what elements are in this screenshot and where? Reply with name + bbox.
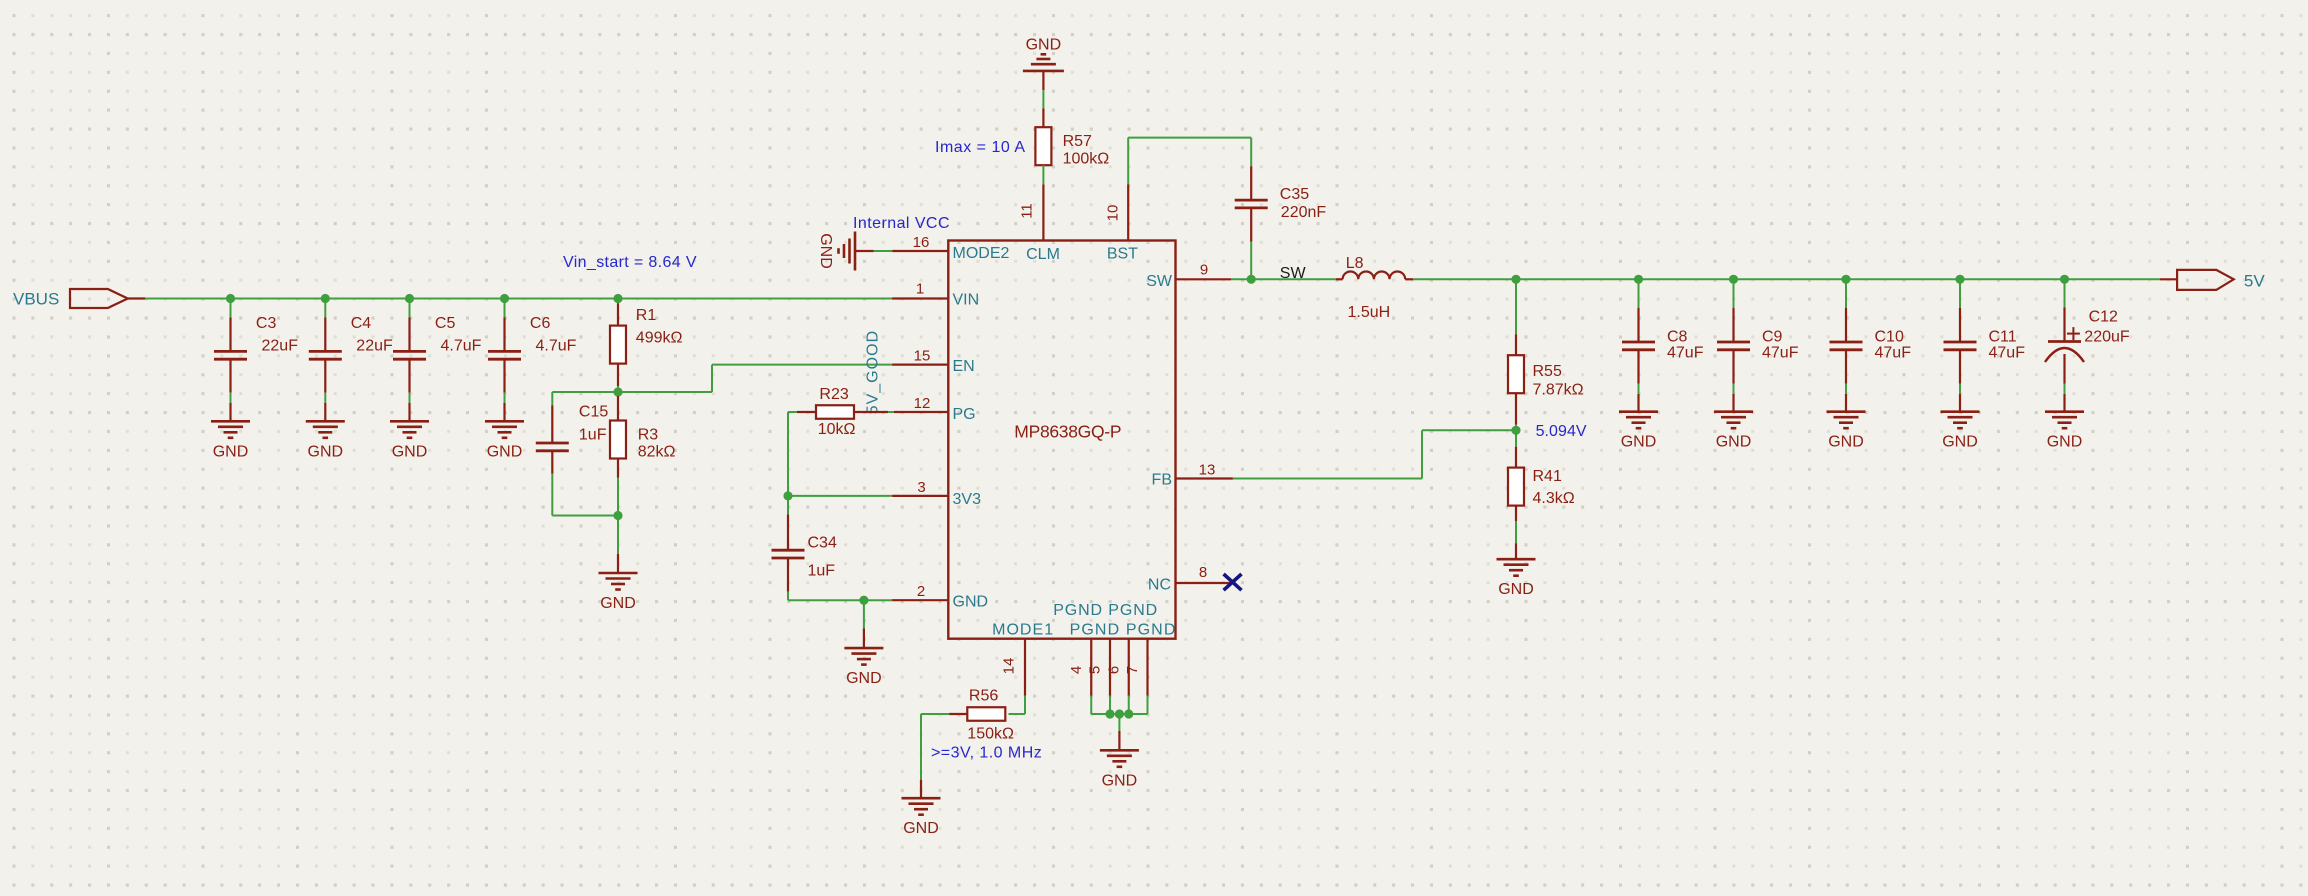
L8 right lead (1405, 278, 1413, 280)
wire node to GND R3 (617, 516, 619, 555)
svg-text:1uF: 1uF (808, 563, 836, 580)
capacitor C12 polarized (2045, 327, 2084, 362)
wire R3 top (617, 392, 619, 396)
svg-text:>=3V, 1.0 MHz: >=3V, 1.0 MHz (931, 745, 1042, 762)
C12 top lead (2063, 307, 2065, 341)
label C35 value (1280, 186, 1327, 221)
svg-text:GND: GND (308, 443, 344, 460)
wire 3V3 net (788, 495, 892, 497)
svg-text:L8: L8 (1346, 255, 1364, 272)
svg-text:GND: GND (903, 820, 939, 837)
C15 bottom lead (551, 451, 553, 474)
resistor R23 (816, 405, 854, 419)
svg-text:5.094V: 5.094V (1536, 423, 1587, 440)
capacitor C9 (1717, 342, 1750, 350)
node PGND junction 5 (1105, 709, 1114, 718)
label C8 value (1667, 328, 1704, 361)
node R3 C15 (613, 511, 622, 520)
GND stub R3 (617, 554, 619, 573)
wire EN net (618, 365, 892, 392)
GND stub MODE2 (855, 250, 874, 252)
svg-text:C12: C12 (2089, 308, 2118, 325)
port VBUS (13, 289, 128, 309)
R41 bottom lead (1515, 506, 1517, 521)
svg-text:100kΩ: 100kΩ (1063, 150, 1110, 167)
wire PGND pin 6 (1128, 696, 1130, 714)
pin 9 SW stub (1175, 278, 1231, 280)
svg-text:R57: R57 (1063, 133, 1092, 150)
GND stub C4 (324, 403, 326, 422)
wire PGND pin 4 (1090, 696, 1092, 714)
svg-text:PGND PGND: PGND PGND (1053, 602, 1157, 619)
GND stub C9 (1732, 394, 1734, 412)
svg-text:FB: FB (1152, 471, 1172, 488)
svg-text:C3: C3 (256, 315, 277, 332)
svg-text:R23: R23 (819, 386, 848, 403)
GND stub C10 (1845, 394, 1847, 412)
svg-text:C9: C9 (1762, 328, 1783, 345)
node VBUS junction R1 (613, 294, 622, 303)
svg-text:PG: PG (953, 406, 976, 423)
pin number 8 (1199, 564, 1207, 581)
wire C8 to GND (1638, 384, 1640, 394)
R56 left lead (949, 713, 967, 715)
svg-text:5V_GOOD: 5V_GOOD (865, 331, 882, 415)
pin name PG (953, 406, 976, 423)
R23 left lead (797, 411, 816, 413)
svg-text:4.7uF: 4.7uF (536, 337, 577, 354)
svg-text:1: 1 (916, 281, 924, 298)
wire R1 to node (617, 386, 619, 392)
wire C11 to GND (1959, 384, 1961, 394)
GND stub PGND (1118, 731, 1120, 750)
ground C11 (1941, 412, 1980, 451)
ground C12 (2045, 412, 2084, 451)
svg-text:GND: GND (392, 443, 428, 460)
node 5V junction C10 (1841, 275, 1850, 284)
C4 top lead (324, 318, 326, 352)
svg-text:GND: GND (2047, 434, 2083, 451)
wire C15 to node (552, 474, 618, 516)
node VBUS junction C4 (321, 294, 330, 303)
pin name VIN (953, 292, 980, 309)
pin name MODE2 (953, 245, 1010, 262)
pin 10 BST stub (1127, 184, 1129, 240)
resistor R57 (1035, 127, 1051, 165)
wire VBUS to C6 (504, 299, 506, 318)
svg-text:1.5uH: 1.5uH (1348, 304, 1391, 321)
svg-text:6: 6 (1105, 666, 1122, 674)
ground C8 (1619, 412, 1658, 451)
label R23 value (818, 386, 856, 438)
svg-text:EN: EN (953, 358, 975, 375)
svg-text:8: 8 (1199, 564, 1207, 581)
label L8 value (1346, 255, 1391, 321)
C8 top lead (1637, 308, 1639, 342)
wire PGND pin 5 (1109, 696, 1111, 714)
C3 bottom lead (229, 359, 231, 393)
node PGND junction mid (1115, 709, 1124, 718)
ground C34 (844, 648, 883, 687)
label R1 value (636, 307, 683, 347)
wire R41 to GND (1515, 521, 1517, 543)
C8 bottom lead (1637, 350, 1639, 384)
R41 top lead (1515, 447, 1517, 468)
node FB junction (1511, 426, 1520, 435)
svg-text:GND: GND (846, 670, 882, 687)
pin 1 VIN stub (892, 297, 949, 299)
resistor R3 (610, 421, 626, 459)
C10 bottom lead (1845, 350, 1847, 384)
svg-text:13: 13 (1199, 462, 1216, 479)
resistor R55 (1508, 355, 1524, 393)
svg-text:BST: BST (1107, 245, 1138, 262)
svg-text:47uF: 47uF (1875, 345, 1912, 362)
R3 top lead (617, 396, 619, 421)
ground MODE2 (817, 232, 855, 271)
node 5V junction R55 (1511, 275, 1520, 284)
svg-text:5: 5 (1087, 666, 1104, 674)
pin 14 MODE1 stub (1024, 639, 1026, 696)
capacitor C3 (214, 351, 247, 359)
wire C35 to SW (1250, 242, 1252, 280)
pin 11 CLM stub (1042, 184, 1044, 240)
svg-text:15: 15 (914, 348, 931, 365)
C34 bottom lead (787, 558, 789, 592)
svg-text:499kΩ: 499kΩ (636, 330, 683, 347)
wire SW to L8 (1251, 278, 1336, 280)
svg-text:GND: GND (1942, 434, 1978, 451)
pin 16 MODE2 stub (892, 250, 949, 252)
svg-text:Imax = 10 A: Imax = 10 A (935, 139, 1025, 156)
label C4 value (351, 315, 393, 354)
svg-text:GND: GND (1498, 581, 1534, 598)
svg-text:16: 16 (913, 234, 930, 251)
label C6 value (530, 315, 577, 354)
capacitor C15 (536, 443, 569, 451)
svg-text:GND: GND (1026, 37, 1062, 54)
R57 top lead (1042, 108, 1044, 127)
node VBUS junction C3 (226, 294, 235, 303)
wire R55 to FB node (1515, 425, 1517, 431)
wire C5 to GND (409, 393, 411, 403)
label R55 value (1533, 363, 1584, 399)
label C5 value (435, 315, 482, 354)
svg-text:47uF: 47uF (1762, 345, 1799, 362)
wire 5V to C9 (1733, 279, 1735, 308)
svg-text:1uF: 1uF (579, 427, 607, 444)
node R1 R3 EN (613, 387, 622, 396)
wire 5V port lead (2160, 278, 2177, 280)
label C3 value (256, 315, 298, 354)
GND stub C34 (863, 629, 865, 649)
svg-text:GND: GND (213, 443, 249, 460)
R55 bottom lead (1515, 393, 1517, 425)
node 5V junction C9 (1729, 275, 1738, 284)
resistor R56 (967, 707, 1005, 721)
pin number 10 (1105, 205, 1122, 222)
svg-text:3: 3 (917, 479, 925, 496)
label C12 value (2084, 308, 2130, 345)
pin 7 PGND stub (1146, 639, 1148, 696)
svg-text:C4: C4 (351, 315, 372, 332)
C5 bottom lead (408, 359, 410, 393)
pin number 3 (917, 479, 925, 496)
svg-text:GND: GND (600, 595, 636, 612)
label net SW (1280, 265, 1307, 282)
svg-text:150kΩ: 150kΩ (967, 726, 1014, 743)
pin 13 FB stub (1175, 477, 1233, 479)
svg-text:C10: C10 (1875, 328, 1904, 345)
ground R41 (1497, 559, 1536, 598)
wire node to C34 (787, 496, 789, 515)
svg-text:GND: GND (487, 443, 523, 460)
svg-text:C34: C34 (808, 535, 837, 552)
wire PGND pin 7 (1147, 696, 1149, 714)
pin 12 PG stub (894, 411, 949, 413)
pin number 16 (913, 234, 930, 251)
ground C4 (306, 421, 345, 460)
GND stub C6 (503, 403, 505, 422)
svg-text:VBUS: VBUS (13, 290, 59, 309)
label C11 value (1989, 328, 2026, 361)
node VBUS junction C5 (405, 294, 414, 303)
svg-text:10kΩ: 10kΩ (818, 421, 856, 438)
resistor R1 (610, 326, 626, 364)
svg-text:4: 4 (1068, 666, 1085, 674)
svg-text:GND: GND (1621, 434, 1657, 451)
svg-text:R41: R41 (1533, 468, 1562, 485)
svg-text:MP8638GQ-P: MP8638GQ-P (1014, 422, 1121, 442)
svg-text:R3: R3 (638, 427, 659, 444)
C4 bottom lead (324, 359, 326, 393)
node SW junction (1247, 275, 1256, 284)
svg-text:3V3: 3V3 (953, 491, 982, 508)
svg-text:C11: C11 (1989, 328, 2017, 345)
wire R23 to 3V3 node (787, 412, 789, 496)
node PGND junction 6 (1124, 709, 1133, 718)
pin name EN (953, 358, 975, 375)
ground C5 (390, 421, 429, 460)
C35 top lead (1250, 166, 1252, 200)
pin number 1 (916, 281, 924, 298)
wire R56 to GND (921, 714, 949, 780)
C9 top lead (1732, 308, 1734, 342)
svg-text:5V: 5V (2244, 271, 2265, 290)
ground R57 (1023, 37, 1064, 71)
svg-text:47uF: 47uF (1667, 345, 1704, 362)
wire VBUS to C4 (324, 299, 326, 318)
svg-text:4.3kΩ: 4.3kΩ (1533, 490, 1575, 507)
wire C10 to GND (1845, 384, 1847, 394)
label C34 value (808, 535, 837, 580)
svg-text:12: 12 (914, 395, 931, 412)
pin number 15 (914, 348, 931, 365)
wire GND node down (863, 600, 865, 628)
R23 right lead (854, 411, 888, 413)
resistor R41 (1508, 468, 1524, 506)
wire MODE2 to GND (874, 250, 893, 252)
pin number 7 (1124, 666, 1141, 674)
pin name PGND row lower (1070, 622, 1176, 639)
svg-text:SW: SW (1280, 265, 1307, 282)
capacitor C34 (772, 550, 805, 558)
svg-text:11: 11 (1019, 203, 1036, 219)
svg-text:MODE1: MODE1 (992, 622, 1053, 639)
label FB voltage annotation (1536, 423, 1587, 440)
wire FB node to R41 (1515, 430, 1517, 446)
pin name GND (953, 594, 989, 611)
pin number 14 (1001, 658, 1018, 675)
ground R3 (599, 573, 638, 612)
pin 5 PGND stub (1109, 639, 1111, 696)
inductor L8 (1343, 271, 1406, 279)
wire SW stub to junction (1231, 278, 1251, 280)
GND stub R56 (920, 780, 922, 798)
C15 top lead (551, 405, 553, 443)
pin number 9 (1200, 262, 1208, 279)
pin 3 3V3 stub (892, 495, 949, 497)
pin number 2 (917, 583, 925, 600)
svg-text:220uF: 220uF (2084, 329, 2130, 346)
L8 left lead (1336, 278, 1343, 280)
C10 top lead (1845, 308, 1847, 342)
GND stub R41 (1515, 543, 1517, 559)
wire C12 to GND (2064, 384, 2066, 394)
wire C3 to GND (230, 393, 232, 403)
wire 5V to R55 (1515, 279, 1517, 334)
label net 5V_GOOD (865, 331, 882, 415)
pin number 11 (1019, 203, 1036, 219)
svg-text:MODE2: MODE2 (953, 245, 1010, 262)
pin number 12 (914, 395, 931, 412)
pin name MODE1 (992, 622, 1053, 639)
label C15 value (579, 404, 608, 444)
pin number 13 (1199, 462, 1216, 479)
GND stub R57 (1042, 71, 1044, 90)
label Internal VCC annotation (853, 215, 950, 232)
svg-text:R55: R55 (1533, 363, 1562, 380)
IC U1 MP8638GQ-P body (948, 241, 1175, 639)
wire 5V to C12 (2064, 279, 2066, 307)
C35 bottom lead (1250, 208, 1252, 242)
wire 5V to C8 (1638, 279, 1640, 308)
no-connect flag X on pin 8 (1224, 574, 1242, 590)
pin number 6 (1105, 666, 1122, 674)
R3 bottom lead (617, 459, 619, 478)
svg-text:C35: C35 (1280, 186, 1309, 203)
pin name CLM (1026, 246, 1060, 263)
wire VBUS port lead (128, 297, 145, 299)
wire C9 to GND (1733, 384, 1735, 394)
wire 5V to C10 (1845, 279, 1847, 308)
C6 top lead (503, 318, 505, 352)
wire R3 to node (617, 478, 619, 516)
wire GND node to pin2 (864, 599, 892, 601)
C12 bottom lead (2063, 354, 2065, 384)
label C10 value (1875, 328, 1912, 361)
wire MODE1 to R56 (1009, 696, 1026, 714)
pin name 3V3 (953, 491, 982, 508)
node 5V junction C12 (2060, 275, 2069, 284)
ground C10 (1827, 412, 1866, 451)
svg-text:22uF: 22uF (356, 337, 393, 354)
svg-text:GND: GND (817, 233, 834, 269)
label MODE1 annotation (931, 745, 1042, 762)
node 5V junction C8 (1634, 275, 1643, 284)
label Vin_start annotation (563, 254, 697, 271)
ground C6 (485, 421, 524, 460)
R1 top lead (617, 304, 619, 326)
wire C4 to GND (324, 393, 326, 403)
svg-text:C6: C6 (530, 315, 551, 332)
wire R23 net vertical (788, 411, 797, 413)
svg-text:C15: C15 (579, 404, 608, 421)
wire VBUS to C5 (409, 299, 411, 318)
wire VBUS to R1 (617, 299, 619, 304)
svg-text:R1: R1 (636, 307, 657, 324)
label R41 value (1533, 468, 1575, 507)
C6 bottom lead (503, 359, 505, 393)
svg-text:C8: C8 (1667, 328, 1688, 345)
GND stub C3 (229, 403, 231, 422)
wire C34 to GND net (788, 592, 864, 601)
GND stub C5 (408, 403, 410, 422)
C34 top lead (787, 514, 789, 550)
svg-text:47uF: 47uF (1989, 345, 2026, 362)
svg-text:4.7uF: 4.7uF (441, 337, 482, 354)
wire FB net (1233, 430, 1516, 478)
GND stub C8 (1637, 394, 1639, 412)
label R56 value (967, 688, 1014, 743)
svg-text:GND: GND (1828, 434, 1864, 451)
pin name NC (1148, 577, 1171, 594)
wire node to C15 (552, 392, 618, 405)
pin name BST (1107, 245, 1138, 262)
svg-text:PGND PGND: PGND PGND (1070, 622, 1176, 639)
C11 bottom lead (1959, 350, 1961, 384)
svg-text:14: 14 (1001, 658, 1018, 675)
wire BST net (1128, 138, 1251, 185)
pin number 4 (1068, 666, 1085, 674)
svg-text:2: 2 (917, 583, 925, 600)
wire C6 to GND (504, 393, 506, 403)
port 5V (2177, 270, 2265, 291)
svg-text:GND: GND (1716, 434, 1752, 451)
svg-text:22uF: 22uF (262, 337, 299, 354)
svg-text:Vin_start = 8.64 V: Vin_start = 8.64 V (563, 254, 697, 271)
wire R23 to PG (888, 411, 894, 413)
GND stub C11 (1959, 394, 1961, 412)
svg-text:CLM: CLM (1026, 246, 1060, 263)
svg-text:VIN: VIN (953, 292, 980, 309)
label C9 value (1762, 328, 1799, 361)
ground C3 (211, 421, 250, 460)
pin name FB (1152, 471, 1172, 488)
capacitor C4 (309, 351, 342, 359)
ground R56 (902, 798, 941, 837)
svg-text:7.87kΩ: 7.87kΩ (1533, 382, 1584, 399)
svg-text:220nF: 220nF (1281, 204, 1327, 221)
pin 2 GND stub (892, 599, 949, 601)
GND stub C12 (2063, 394, 2065, 412)
node GND junction (859, 596, 868, 605)
capacitor C35 (1235, 200, 1268, 208)
pin name SW (1146, 273, 1173, 290)
pin 4 PGND stub (1090, 639, 1092, 696)
ground PGND (1100, 750, 1139, 789)
pin 6 PGND stub (1128, 639, 1130, 696)
